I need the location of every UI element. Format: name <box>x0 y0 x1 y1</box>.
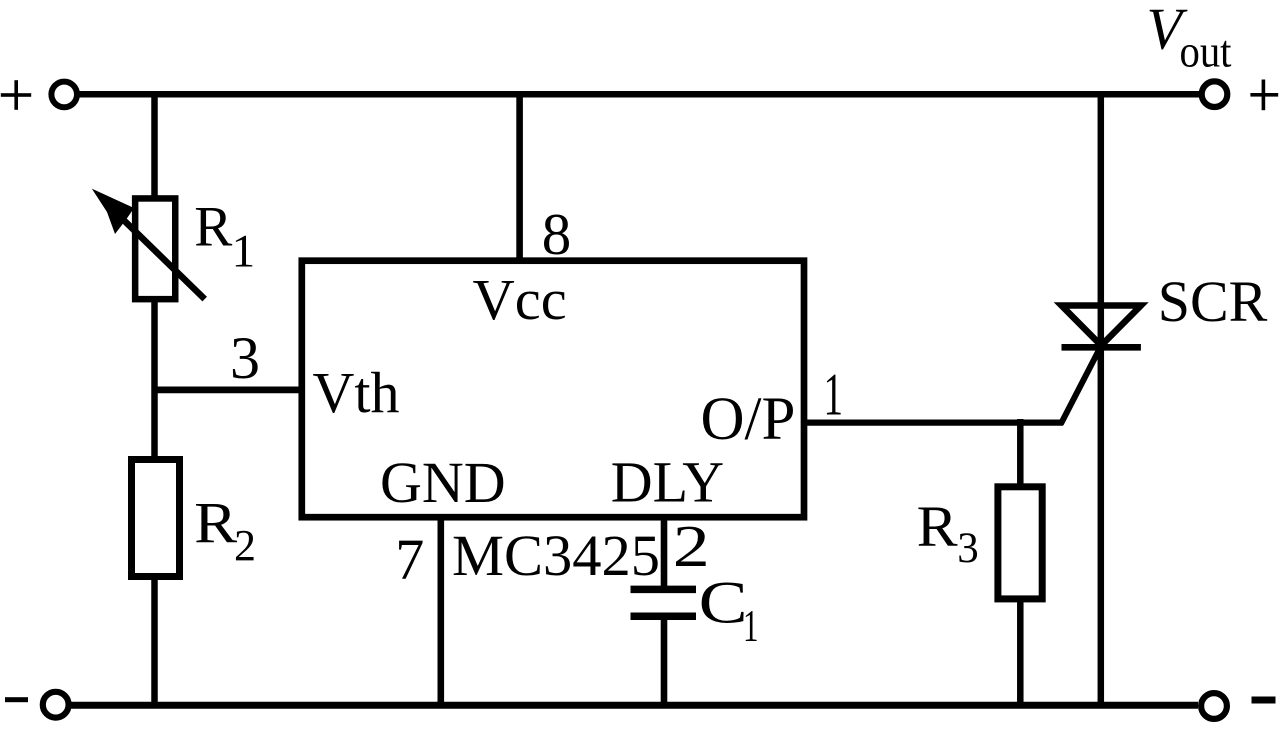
capacitor C1 bottom plate <box>631 612 697 620</box>
svg-text:DLY: DLY <box>611 449 724 514</box>
label R1 <box>194 196 255 278</box>
SCR cathode bar <box>1062 344 1141 351</box>
minus sign bottom-right <box>1252 697 1276 704</box>
capacitor C1 top plate <box>631 586 697 594</box>
svg-text:1: 1 <box>824 362 844 428</box>
resistor R1 (variable) <box>135 198 175 299</box>
wire R3 bottom lead <box>1017 602 1024 705</box>
wire SCR anode vertical <box>1098 91 1105 348</box>
wire GND pin 7 <box>437 515 444 708</box>
wire DLY pin 2 <box>661 515 668 590</box>
wire C1 bottom lead <box>661 616 668 708</box>
svg-text:3: 3 <box>230 325 260 391</box>
svg-text:GND: GND <box>380 450 506 515</box>
svg-text:3: 3 <box>957 525 979 572</box>
wire Vcc pin 8 <box>516 91 523 261</box>
svg-text:Vcc: Vcc <box>473 267 567 332</box>
svg-text:1: 1 <box>743 600 759 651</box>
wire bottom rail <box>71 702 1198 709</box>
label C1 <box>699 570 759 652</box>
plus sign top-right <box>1250 80 1278 111</box>
wire pin3 horizontal <box>152 387 303 394</box>
wire R3 top lead <box>1017 419 1024 485</box>
svg-text:C: C <box>699 570 748 636</box>
svg-text:2: 2 <box>234 521 256 570</box>
arrow of variable resistor R1 <box>92 189 205 300</box>
terminal circle bottom-left <box>43 692 69 718</box>
svg-text:R: R <box>917 494 958 559</box>
svg-text:7: 7 <box>395 527 424 592</box>
SCR triangle <box>1062 306 1141 346</box>
svg-text:1: 1 <box>232 225 256 277</box>
minus sign bottom-left <box>5 697 28 702</box>
label R3 <box>917 494 979 572</box>
terminal circle top-right <box>1202 81 1228 107</box>
wire SCR cathode vertical <box>1098 348 1105 705</box>
IC box MC3425 U1 <box>302 261 804 518</box>
svg-text:O/P: O/P <box>701 386 796 453</box>
label R2 <box>194 490 256 570</box>
wire left branch vertical (R1/R2 branch) <box>151 91 158 705</box>
svg-text:MC3425: MC3425 <box>452 523 660 588</box>
svg-text:8: 8 <box>542 201 572 267</box>
terminal circle bottom-right <box>1201 693 1227 719</box>
resistor R3 <box>998 487 1042 599</box>
resistor R2 <box>132 460 180 577</box>
svg-text:R: R <box>194 490 237 555</box>
wire SCR gate diagonal <box>1061 345 1102 425</box>
wire top rail <box>79 91 1199 98</box>
terminal circle top-left <box>51 82 77 108</box>
label Vout <box>1147 0 1232 77</box>
svg-text:out: out <box>1180 27 1232 77</box>
svg-text:R: R <box>194 196 232 259</box>
wire O/P pin 1 horizontal <box>804 419 1063 425</box>
svg-text:SCR: SCR <box>1158 269 1268 334</box>
svg-text:Vth: Vth <box>313 360 400 425</box>
plus sign top-left <box>1 80 31 110</box>
